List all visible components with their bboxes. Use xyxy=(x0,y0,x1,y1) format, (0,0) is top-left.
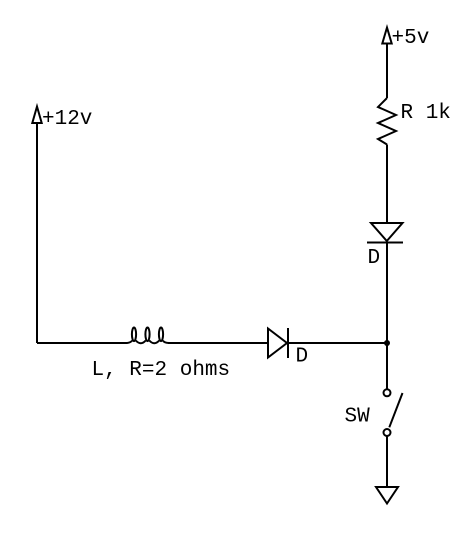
wire inductor to diode xyxy=(168,342,268,344)
diode D (pull-up, cathode down) xyxy=(367,223,403,243)
wire left rail vertical xyxy=(36,123,38,343)
svg-text:R 1k: R 1k xyxy=(401,102,451,125)
svg-text:D: D xyxy=(368,247,381,270)
wire horizontal to inductor xyxy=(37,342,126,344)
resistor R xyxy=(378,98,396,145)
svg-text:L, R=2 ohms: L, R=2 ohms xyxy=(92,359,231,382)
power symbol +12V xyxy=(32,107,41,124)
inductor L xyxy=(126,328,169,344)
wire switch to ground xyxy=(386,437,388,488)
wire resistor to diode xyxy=(386,145,388,224)
switch SW xyxy=(384,389,403,436)
wire +5v to resistor xyxy=(386,44,388,99)
wire node to switch xyxy=(386,343,388,389)
diode D (series) xyxy=(268,328,288,358)
node junction dot xyxy=(384,340,390,346)
wire diode to node xyxy=(386,243,388,344)
wire diode to node xyxy=(287,342,387,344)
svg-text:SW: SW xyxy=(345,406,371,429)
svg-text:D: D xyxy=(296,346,309,369)
svg-text:+12v: +12v xyxy=(42,108,92,131)
ground xyxy=(376,487,398,504)
power symbol +5V xyxy=(382,28,391,44)
svg-text:+5v: +5v xyxy=(392,27,430,50)
